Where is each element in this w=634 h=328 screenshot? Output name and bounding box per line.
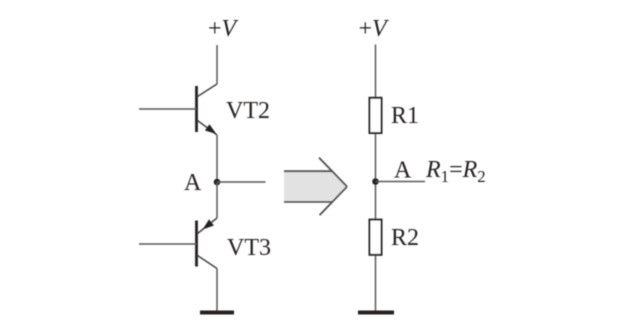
node A (left) label <box>184 170 202 196</box>
wire base VT3 <box>139 243 197 245</box>
svg-text:R2: R2 <box>391 225 419 251</box>
wire R1 to node A right <box>375 134 377 219</box>
wire node A to emitter VT3 <box>216 182 218 218</box>
equivalence block arrow <box>284 158 347 216</box>
wire collector VT3 to ground <box>216 269 218 312</box>
label R1 <box>391 103 419 129</box>
svg-text:VT3: VT3 <box>227 235 271 261</box>
svg-text:A: A <box>184 170 202 196</box>
junction dot node A left <box>214 179 221 186</box>
label VT3 <box>227 235 271 261</box>
resistor R2 <box>370 220 382 255</box>
node +V (left supply label) <box>208 16 239 42</box>
ground (left) <box>200 311 234 315</box>
svg-text:VT2: VT2 <box>226 98 270 124</box>
node A (right) label <box>394 158 412 184</box>
node +V (right supply label) <box>359 16 390 42</box>
wire output from node A right <box>376 181 426 183</box>
svg-text:R1: R1 <box>391 103 419 129</box>
wire base VT2 <box>139 108 197 110</box>
wire emitter VT2 to node A <box>216 135 218 182</box>
ground (right) <box>358 311 394 315</box>
wire R2 to ground <box>375 256 377 312</box>
wire output from node A left <box>217 181 266 183</box>
svg-text:+V: +V <box>359 16 390 42</box>
resistor R1 <box>370 98 382 133</box>
transistor VT2 (NPN) <box>197 84 218 135</box>
label R1=R2 equation <box>425 157 486 186</box>
svg-text:+V: +V <box>208 16 239 42</box>
label VT2 <box>226 98 270 124</box>
wire +V to R1 <box>375 45 377 98</box>
transistor VT3 (PNP) <box>197 218 218 269</box>
svg-text:A: A <box>394 158 412 184</box>
svg-text:R1=R2: R1=R2 <box>425 157 486 186</box>
wire collector VT2 to +V <box>216 45 218 84</box>
label R2 <box>391 225 419 251</box>
junction dot node A right <box>372 178 379 185</box>
